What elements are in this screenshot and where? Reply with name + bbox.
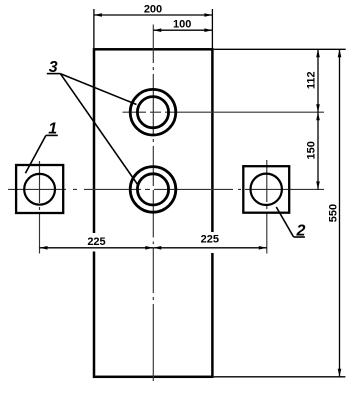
extension line bottom right (from plate corner): [214, 376, 346, 378]
plate outline: [94, 49, 212, 377]
dimension line 225 right: [153, 247, 266, 249]
arrow 150 top: [316, 112, 320, 120]
dimension line 225 left: [40, 247, 154, 249]
dimension line 100: [153, 29, 212, 31]
dimension line 150: [317, 112, 319, 189]
arrow 100 left: [153, 28, 161, 32]
arrow 100 right: [204, 28, 212, 32]
dimension line 550: [339, 49, 341, 376]
dimension line 200: [94, 14, 212, 16]
arrow 200 right: [204, 13, 212, 17]
arrow 150 bottom: [316, 181, 320, 189]
arrow 112 bottom: [316, 104, 320, 112]
arrow 225L right: [145, 246, 153, 250]
leader from 3 to bottom hole: [60, 74, 138, 186]
label 3 underline: [47, 73, 61, 75]
centerline vertical (plate axis): [152, 25, 154, 382]
svg-text:150: 150: [305, 141, 317, 159]
svg-text:225: 225: [201, 233, 219, 245]
leader from 1 to left square: [25, 135, 46, 173]
extension line right for dims 200 and 100: [211, 9, 213, 48]
arrow 200 left: [94, 13, 102, 17]
left square circle: [24, 174, 55, 205]
arrow 550 bottom: [338, 369, 342, 377]
leader from 3 to top hole: [60, 74, 136, 105]
centerline vertical (right square axis / extension): [266, 160, 268, 254]
arrow 225R right: [259, 246, 267, 250]
arrow 550 top: [338, 49, 342, 57]
left square (part 1): [16, 165, 63, 213]
gap in plate right edge for 225 label: [207, 232, 217, 253]
centerline horizontal (top hole axis): [123, 111, 325, 113]
svg-text:225: 225: [87, 236, 105, 248]
label 2 underline: [294, 236, 305, 238]
label 1 underline: [46, 134, 58, 136]
centerline horizontal (main axis through squares): [8, 188, 324, 190]
svg-text:550: 550: [328, 204, 340, 222]
right square (part 2): [243, 166, 289, 213]
dimension line 112: [317, 49, 319, 112]
hole bottom inner circle: [137, 174, 168, 205]
right square circle: [251, 174, 282, 205]
extension line left for dim 200: [93, 9, 95, 48]
gap in plate left edge for 225 label: [89, 233, 99, 252]
arrow 225R left: [153, 246, 161, 250]
centerline vertical (left square axis / extension): [39, 161, 41, 254]
leader from 2 to right square: [276, 207, 293, 237]
hole top inner circle: [137, 97, 168, 128]
svg-text:100: 100: [173, 19, 191, 31]
svg-text:112: 112: [305, 71, 317, 89]
svg-text:200: 200: [144, 4, 162, 16]
extension line top right (from plate corner): [214, 48, 346, 50]
hole top outer circle: [130, 89, 176, 135]
hole bottom outer circle: [130, 167, 176, 213]
arrow 225L left: [40, 246, 48, 250]
arrow 112 top: [316, 49, 320, 57]
